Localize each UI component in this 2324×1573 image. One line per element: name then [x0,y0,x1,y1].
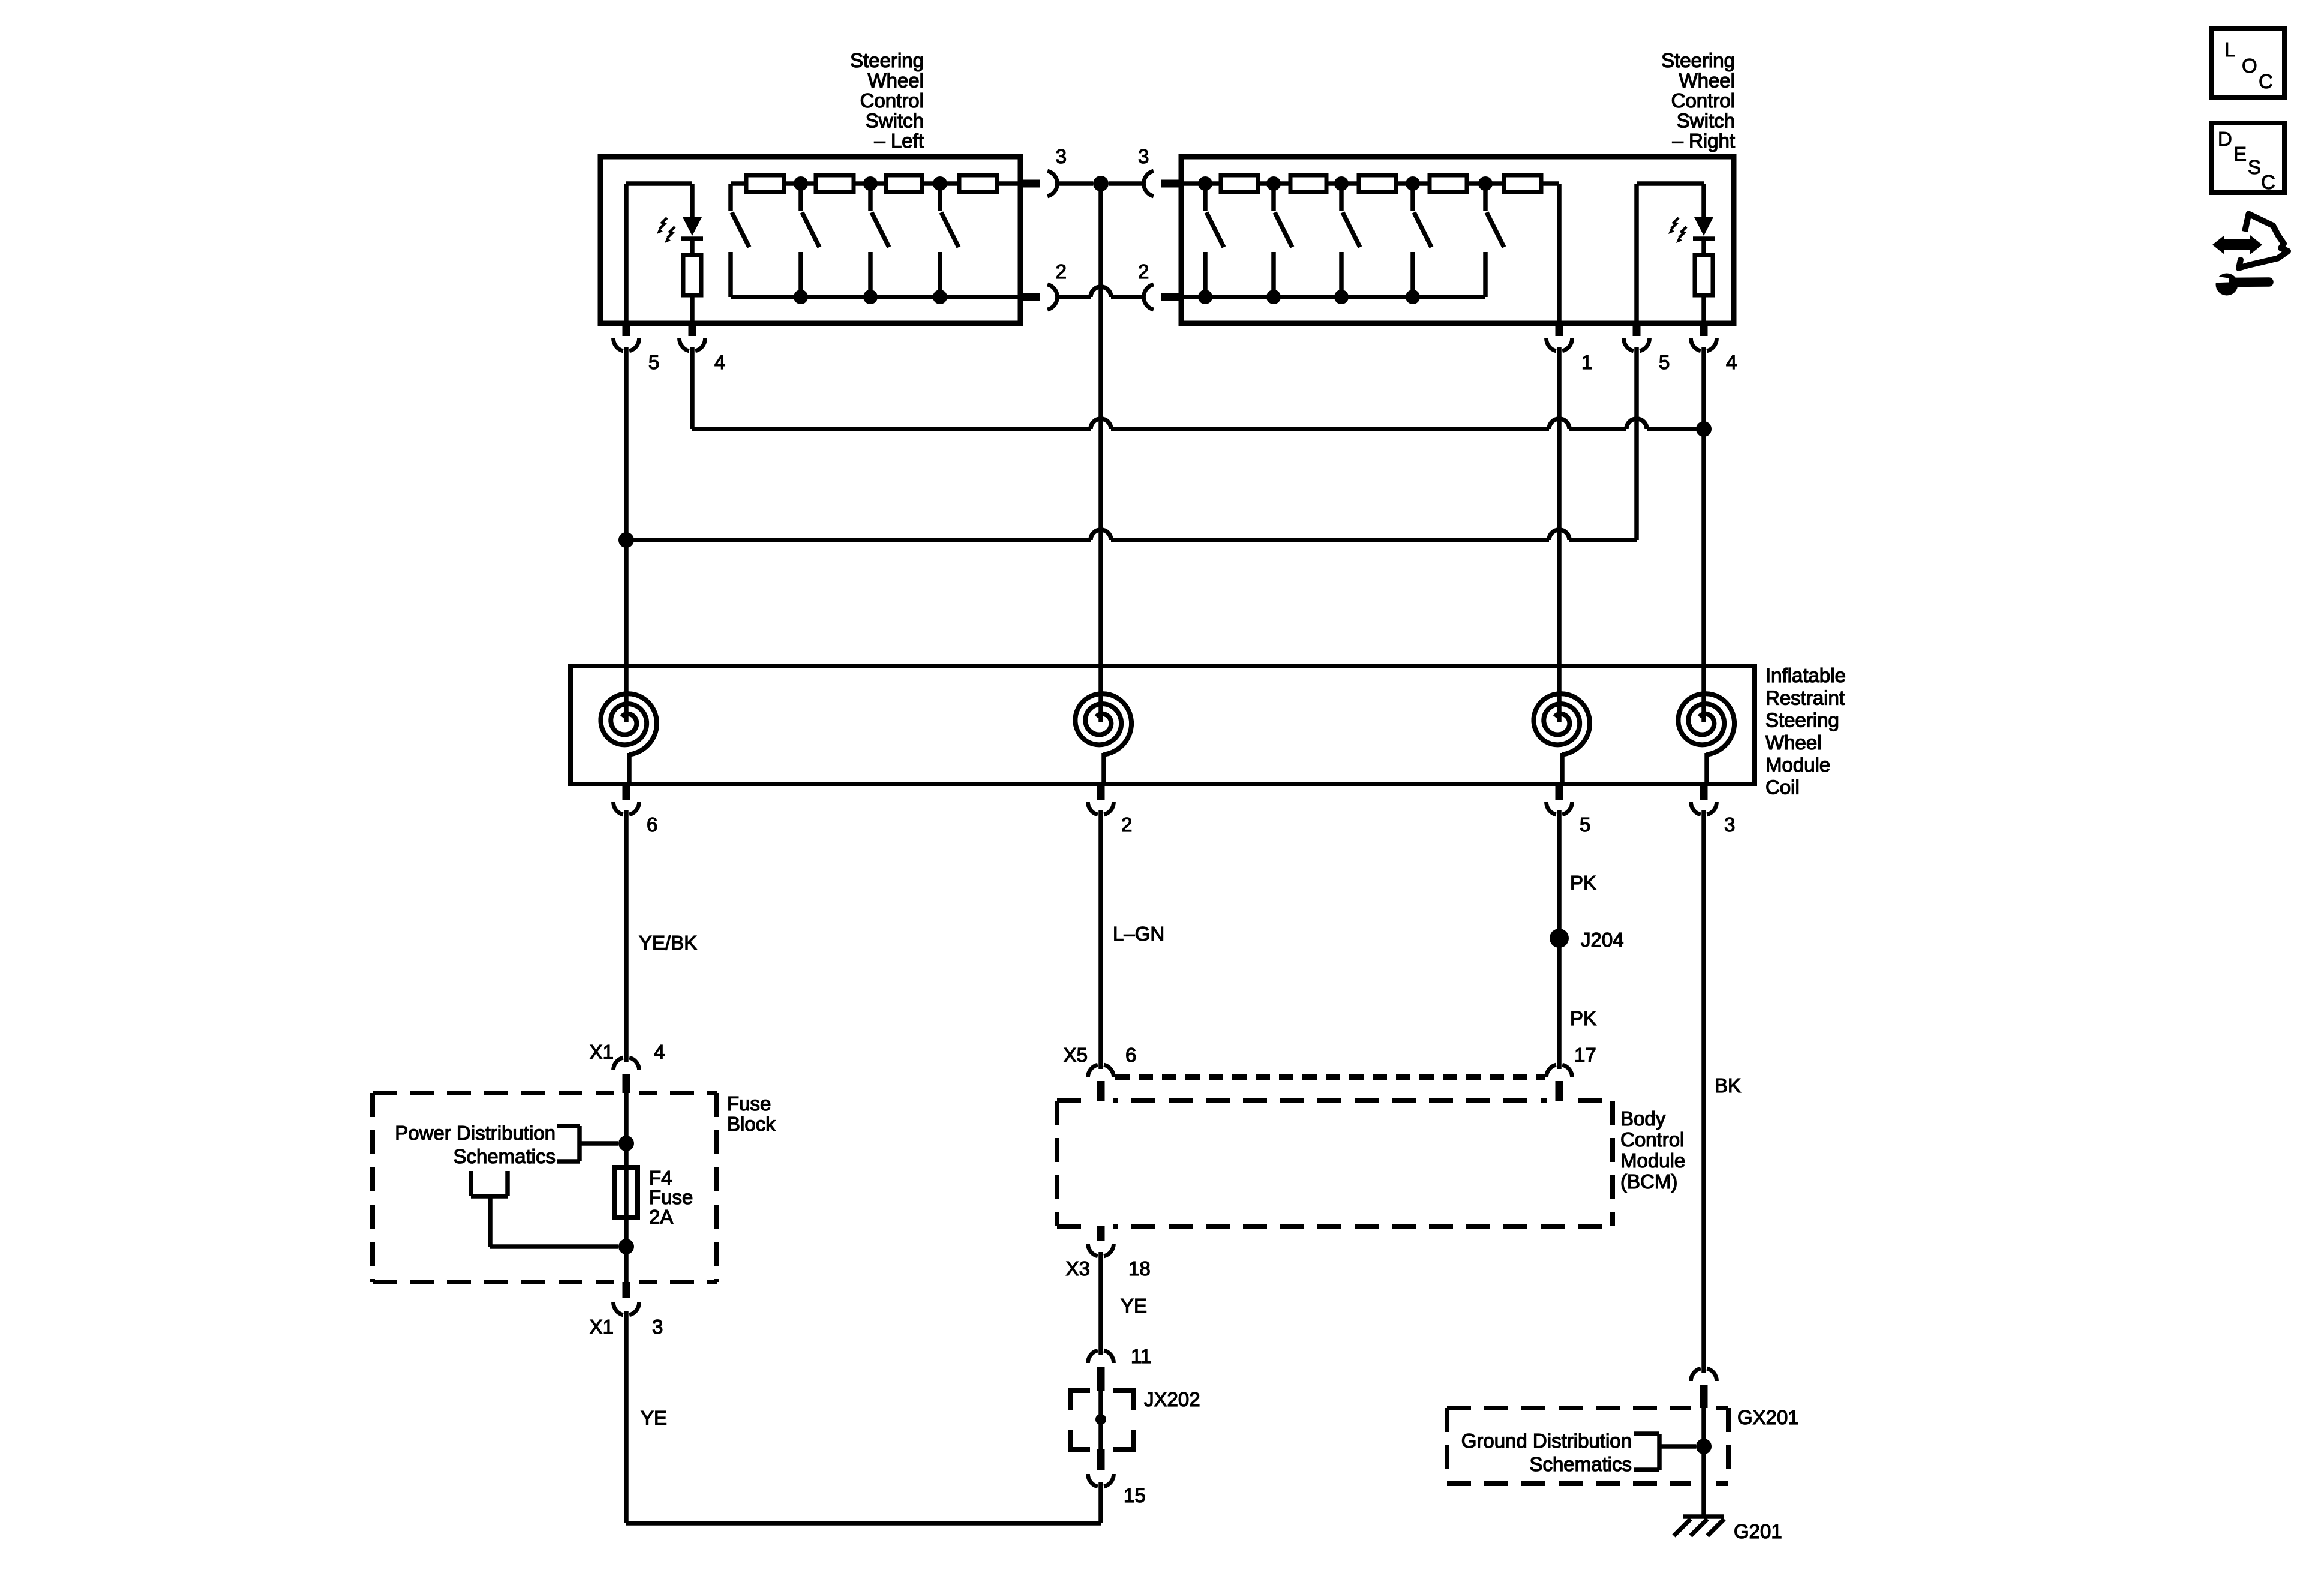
svg-text:Control: Control [1620,1128,1684,1151]
svg-text:Block: Block [727,1113,776,1135]
svg-text:X5: X5 [1064,1044,1088,1066]
svg-text:6: 6 [647,813,657,836]
svg-text:4: 4 [1726,351,1737,373]
svg-text:PK: PK [1570,1007,1596,1029]
svg-text:1: 1 [1581,351,1592,373]
svg-text:Wheel: Wheel [867,70,924,92]
svg-text:Module: Module [1765,754,1830,776]
svg-text:C: C [2261,171,2275,193]
svg-text:17: 17 [1574,1044,1596,1066]
svg-text:D: D [2218,128,2232,150]
svg-text:G201: G201 [1734,1520,1782,1542]
svg-text:X3: X3 [1066,1257,1090,1280]
svg-text:Steering: Steering [1765,709,1839,731]
svg-text:E: E [2233,143,2247,165]
svg-text:Wheel: Wheel [1679,70,1735,92]
svg-text:JX202: JX202 [1144,1388,1200,1410]
svg-text:BK: BK [1715,1074,1741,1097]
svg-text:3: 3 [652,1316,663,1338]
svg-text:11: 11 [1131,1345,1151,1367]
svg-text:Coil: Coil [1765,776,1800,798]
svg-text:Body: Body [1620,1107,1666,1130]
svg-text:15: 15 [1124,1484,1146,1506]
svg-text:L–GN: L–GN [1113,923,1164,945]
svg-text:Schematics: Schematics [453,1145,556,1167]
svg-text:J204: J204 [1581,929,1624,951]
svg-text:5: 5 [1580,813,1590,836]
svg-text:X1: X1 [590,1041,614,1063]
svg-text:Fuse: Fuse [727,1092,771,1115]
svg-text:S: S [2248,156,2261,178]
svg-text:3: 3 [1138,145,1149,167]
svg-text:18: 18 [1128,1257,1151,1280]
svg-text:YE/BK: YE/BK [639,932,697,954]
svg-text:YE: YE [641,1407,667,1429]
svg-text:2: 2 [1138,260,1149,283]
svg-text:PK: PK [1570,872,1596,894]
svg-text:6: 6 [1125,1044,1136,1066]
svg-text:GX201: GX201 [1737,1406,1799,1428]
svg-text:Power Distribution: Power Distribution [395,1122,556,1144]
svg-text:Schematics: Schematics [1529,1453,1632,1475]
svg-text:Steering: Steering [1661,49,1735,71]
svg-text:2A: 2A [649,1206,673,1228]
svg-text:3: 3 [1056,145,1067,167]
svg-text:Steering: Steering [850,49,924,71]
svg-text:4: 4 [714,351,725,373]
svg-text:(BCM): (BCM) [1620,1170,1677,1193]
svg-text:5: 5 [1659,351,1670,373]
svg-text:Module: Module [1620,1149,1685,1172]
svg-text:3: 3 [1724,813,1735,836]
svg-text:Switch: Switch [1677,110,1735,132]
svg-text:– Left: – Left [874,130,924,152]
svg-text:4: 4 [654,1041,665,1063]
svg-text:YE: YE [1121,1295,1147,1317]
svg-text:Switch: Switch [866,110,924,132]
svg-text:L: L [2224,38,2235,61]
svg-text:2: 2 [1056,260,1067,283]
svg-text:5: 5 [648,351,659,373]
svg-text:2: 2 [1121,813,1132,836]
svg-text:– Right: – Right [1672,130,1735,152]
svg-text:O: O [2242,55,2257,77]
svg-text:Fuse: Fuse [649,1186,693,1208]
svg-text:Inflatable: Inflatable [1765,664,1846,686]
svg-text:X1: X1 [590,1316,614,1338]
svg-text:Ground Distribution: Ground Distribution [1461,1430,1632,1452]
svg-text:Control: Control [1671,89,1735,112]
svg-text:Restraint: Restraint [1765,686,1845,709]
svg-text:Control: Control [860,89,924,112]
svg-text:C: C [2259,70,2273,92]
svg-text:Wheel: Wheel [1765,731,1822,754]
